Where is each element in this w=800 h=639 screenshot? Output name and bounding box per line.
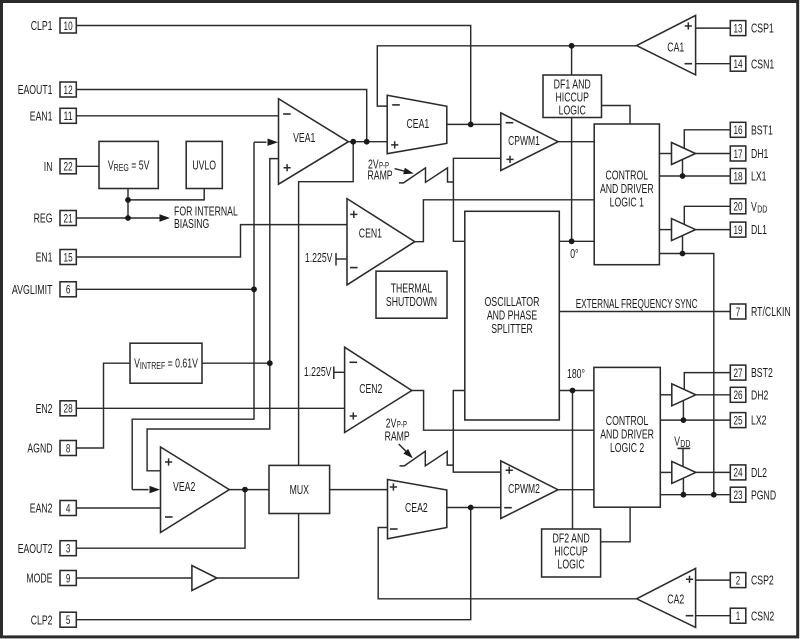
block OSCILLATOR AND PHASE SPLITTER [465, 211, 560, 420]
op-amp VEA2 [161, 447, 230, 533]
pin EN1 (15) [36, 250, 77, 265]
transconductance amp CEA2 [388, 480, 447, 539]
regulator VREG = 5V [99, 141, 158, 188]
junction driver 2 ground [681, 492, 687, 498]
wire CSN2 to CA2 [696, 615, 731, 617]
pin RT/CLKIN (7) [730, 304, 790, 319]
svg-text:PGND: PGND [751, 487, 776, 502]
pin AVGLIMIT (6) [12, 282, 76, 297]
pin CLP2 (5) [31, 612, 77, 627]
svg-text:CA1: CA1 [667, 39, 684, 54]
label 2VP-P RAMP (phase 2) [385, 416, 410, 444]
pin DH2 (26) [730, 387, 768, 402]
svg-text:CSP2: CSP2 [751, 573, 774, 588]
svg-text:SHUTDOWN: SHUTDOWN [386, 294, 437, 309]
svg-text:DH1: DH1 [751, 146, 768, 161]
wire VEA1 output to MUX input [299, 142, 354, 466]
svg-text:CA2: CA2 [667, 592, 684, 607]
svg-text:CEN2: CEN2 [359, 381, 382, 396]
svg-text:14: 14 [733, 57, 742, 71]
wire LX2 [660, 419, 730, 421]
svg-text:2: 2 [736, 573, 741, 587]
wire arrow into VEA1 [254, 141, 267, 143]
junction VREG/UVLO bias [125, 197, 131, 203]
svg-text:1: 1 [736, 609, 741, 623]
svg-text:1.225V: 1.225V [304, 364, 332, 379]
svg-text:25: 25 [733, 413, 742, 427]
junction driver 1 ground [680, 251, 686, 257]
wire REG to internal biasing arrow [76, 217, 159, 219]
wire EAOUT2 to VEA2 output node [76, 490, 245, 549]
wire DH2 [696, 394, 731, 396]
wire control logic 2 to high driver 2 [660, 394, 672, 396]
wire CEN2 output to control logic 2 [412, 391, 594, 431]
svg-text:11: 11 [64, 109, 73, 123]
wire CLP2 to CEA2 output node [76, 508, 470, 620]
svg-text:LX2: LX2 [751, 413, 767, 428]
svg-text:= 5V: = 5V [129, 158, 150, 173]
svg-text:CEA2: CEA2 [405, 500, 428, 515]
junction LX1 [680, 173, 686, 179]
svg-text:CSN2: CSN2 [751, 608, 774, 623]
wire control logic 1 to high driver 1 [659, 153, 671, 155]
svg-text:9: 9 [66, 571, 71, 585]
wire VDD pin to low driver 1 [684, 206, 730, 225]
svg-text:MUX: MUX [290, 482, 310, 497]
wire CSP2 to CA2 [696, 579, 731, 581]
comparator CEN2 [345, 347, 412, 432]
wire 1.225V to CEN2 - input [334, 371, 345, 373]
svg-text:13: 13 [733, 21, 742, 35]
svg-text:23: 23 [733, 488, 742, 502]
wire VDD symbol to low driver 2 [682, 449, 684, 467]
wire AVGLIMIT vertical to VEA1/VEA2 [132, 142, 254, 489]
svg-text:10: 10 [64, 19, 73, 33]
pin CSN1 (14) [730, 56, 774, 71]
junction REG bias [125, 215, 131, 221]
wire AVGLIMIT bus [76, 288, 254, 290]
VDD supply bar [678, 447, 691, 449]
wire LX1 [659, 175, 730, 177]
svg-text:20: 20 [733, 200, 742, 214]
current amp CA1 [637, 15, 696, 75]
svg-text:EAN2: EAN2 [30, 501, 53, 516]
svg-text:SPLITTER: SPLITTER [491, 321, 533, 336]
wire EAN2 to VEA2 inverting input [76, 507, 160, 509]
wire DH1 [696, 153, 731, 155]
svg-text:REG: REG [34, 211, 53, 226]
comparator CEN1 [347, 199, 415, 285]
junction VEA1 output / EAOUT1 [364, 139, 370, 145]
wire LX2 to driver 2 return [682, 401, 684, 420]
wire MUX output to CEA2 + input [330, 489, 388, 491]
svg-text:LOGIC: LOGIC [558, 556, 585, 571]
svg-text:EN1: EN1 [36, 250, 53, 265]
svg-text:18: 18 [733, 169, 742, 183]
junction VEA1 output / MUX branch [350, 139, 356, 145]
svg-text:DD: DD [680, 439, 690, 450]
driver buffer DH2 [672, 384, 696, 406]
wire AGND to VINTREF [76, 363, 130, 448]
junction VEA2 output / EAOUT2 [242, 487, 248, 493]
wire CEA2 output to CPWM2 - input [447, 507, 501, 509]
driver buffer DL2 [672, 461, 696, 483]
wire RT/CLKIN to oscillator [559, 311, 730, 313]
buffer MODE [192, 566, 217, 591]
pin DH1 (17) [730, 146, 768, 161]
wire DF2 logic to control logic 2 [601, 507, 631, 542]
svg-text:24: 24 [733, 466, 742, 480]
block CONTROL AND DRIVER LOGIC 2 [594, 367, 660, 507]
svg-text:EXTERNAL FREQUENCY SYNC: EXTERNAL FREQUENCY SYNC [576, 296, 698, 311]
block UVLO [186, 141, 222, 188]
comparator CPWM1 [501, 113, 558, 171]
wire VEA2 output to MUX [229, 489, 269, 491]
svg-text:INTREF: INTREF [140, 361, 165, 372]
wire EN2 to CEN2 non-inverting input [76, 407, 344, 409]
wire LX1 to driver 1 return [682, 160, 684, 176]
wire VEA1 output to CEA1 + input [348, 141, 387, 143]
svg-text:6: 6 [66, 283, 71, 297]
wire EAN1 to VEA1 inverting input [76, 115, 278, 117]
junction PGND bus [711, 492, 717, 498]
junction LX2 [681, 417, 687, 423]
svg-text:DH2: DH2 [751, 387, 768, 402]
wire DF1 logic to control logic 1 [602, 106, 631, 125]
svg-text:CLP2: CLP2 [31, 612, 53, 627]
svg-text:BIASING: BIASING [174, 216, 209, 231]
svg-text:CSN1: CSN1 [751, 56, 774, 71]
wire CLP1 to CEA1 output node [76, 26, 470, 125]
pin V (20) [730, 199, 767, 216]
pin MODE (9) [26, 571, 76, 586]
driver buffer DH1 [672, 143, 696, 165]
wire CA1 node to DF1 logic [571, 46, 573, 75]
wire CA2 output to CEA2 - input [378, 528, 636, 599]
svg-text:CEA1: CEA1 [407, 116, 430, 131]
wire low driver 1 ground to PGND bus [659, 254, 713, 495]
svg-text:AVGLIMIT: AVGLIMIT [12, 282, 53, 297]
svg-text:LOGIC 1: LOGIC 1 [610, 194, 644, 209]
junction CA1 output / DF1 [569, 43, 575, 49]
svg-text:BST1: BST1 [751, 122, 773, 137]
label 2VP-P RAMP (phase 1) [368, 156, 393, 182]
wire UVLO to bias node [128, 189, 204, 200]
transconductance amp CEA1 [387, 95, 447, 153]
svg-text:EAOUT2: EAOUT2 [18, 541, 53, 556]
junction CEA1 output / CLP1 [468, 122, 474, 128]
block MUX [269, 465, 330, 513]
wire CA1 output to CEA1 - input [377, 46, 636, 106]
svg-text:UVLO: UVLO [192, 158, 216, 173]
pin DL1 (19) [730, 222, 767, 237]
node 0 deg junction [569, 238, 575, 244]
junction CEA2 output / CLP2 [468, 505, 474, 511]
svg-text:BST2: BST2 [751, 365, 773, 380]
wire CSP1 to CA1 [696, 27, 731, 29]
svg-text:4: 4 [66, 501, 71, 515]
reference VINTREF = 0.61V [130, 343, 202, 383]
svg-text:CPWM1: CPWM1 [508, 133, 540, 148]
svg-text:1.225V: 1.225V [305, 250, 333, 265]
pin EN2 (28) [36, 401, 77, 416]
wire control logic 2 to low driver 2 [660, 471, 672, 473]
svg-text:16: 16 [733, 123, 742, 137]
wire ramp 1 to CPWM1 + input [453, 158, 500, 241]
power symbol VDD (driver 2) [674, 433, 690, 449]
wire bias node down to REG [127, 200, 129, 218]
pin EAOUT1 (12) [18, 82, 77, 97]
comparator CPWM2 [501, 461, 558, 519]
svg-text:REG: REG [114, 163, 129, 174]
wire VINTREF output [202, 362, 270, 364]
svg-text:180°: 180° [567, 366, 585, 381]
wire EN1 to CEN1 non-inverting input [76, 225, 347, 257]
svg-text:27: 27 [733, 366, 742, 380]
svg-text:8: 8 [66, 441, 71, 455]
1.225V reference tick (CEN2) [333, 367, 335, 380]
wire CEA1 output to CPWM1 - input [447, 123, 501, 125]
block THERMAL SHUTDOWN [376, 271, 447, 318]
svg-text:IN: IN [44, 159, 53, 174]
svg-text:19: 19 [733, 223, 742, 237]
junction VINTREF [267, 360, 273, 366]
wire DF1 logic to 0 deg node [571, 118, 573, 242]
wire PGND [660, 494, 730, 496]
svg-text:26: 26 [733, 388, 742, 402]
wire CPWM2 output to control logic 2 [558, 489, 594, 491]
wire BST1 to driver 1 [684, 130, 730, 149]
wire VINTREF vertical to VEA1 + input [147, 159, 278, 471]
svg-text:DD: DD [757, 204, 767, 215]
svg-text:VEA1: VEA1 [293, 130, 315, 145]
ramp 2 pointer arrow [399, 444, 406, 451]
svg-text:AGND: AGND [27, 441, 52, 456]
junction AVGLIMIT [251, 286, 257, 292]
wire CPWM1 output to control logic 1 [558, 141, 594, 143]
pin BST2 (27) [730, 365, 773, 380]
svg-text:RAMP: RAMP [368, 168, 393, 183]
current amp CA2 [637, 568, 696, 627]
svg-text:EAN1: EAN1 [30, 108, 53, 123]
pin CSP1 (13) [730, 21, 773, 36]
wire oscillator 0 deg to control logic 1 [559, 240, 594, 242]
wire IN to VREG [76, 165, 99, 167]
svg-text:V: V [751, 199, 757, 214]
ramp 1 sawtooth [399, 168, 453, 183]
wire driver 1 ground stub [682, 236, 684, 254]
svg-text:7: 7 [736, 305, 741, 319]
ramp 2 sawtooth [400, 451, 454, 466]
svg-text:LX1: LX1 [751, 169, 767, 184]
pin CLP1 (10) [31, 18, 77, 33]
svg-text:EAOUT1: EAOUT1 [18, 82, 53, 97]
wire CEN1 output to control logic 1 [415, 200, 594, 242]
svg-text:0°: 0° [570, 246, 578, 261]
svg-text:22: 22 [64, 160, 73, 174]
wire arrow into VEA2 [132, 489, 148, 491]
driver buffer DL1 [672, 219, 696, 241]
svg-text:21: 21 [64, 211, 73, 225]
wire DL2 [696, 471, 731, 473]
wire driver 2 ground stub [682, 478, 684, 495]
pin AGND (8) [27, 441, 76, 456]
svg-text:CSP1: CSP1 [751, 21, 774, 36]
svg-text:DL2: DL2 [751, 465, 767, 480]
pin EAOUT2 (3) [18, 541, 77, 556]
pin BST1 (16) [730, 122, 773, 137]
pin IN (22) [44, 159, 77, 174]
svg-text:17: 17 [733, 147, 742, 161]
wire 180 deg node to DF2 logic [572, 391, 574, 530]
svg-text:3: 3 [66, 542, 71, 556]
wire BST2 to driver 2 [684, 373, 730, 391]
pin CSN2 (1) [730, 608, 774, 623]
pin DL2 (24) [730, 465, 767, 480]
wire MODE to buffer [76, 577, 192, 579]
block DF2 AND HICCUP LOGIC [542, 529, 601, 577]
wire oscillator 180 deg to control logic 2 [559, 390, 594, 392]
pin LX1 (18) [730, 169, 766, 184]
block DF1 AND HICCUP LOGIC [543, 75, 602, 118]
svg-text:CPWM2: CPWM2 [508, 481, 540, 496]
svg-text:VEA2: VEA2 [173, 479, 195, 494]
svg-text:RAMP: RAMP [385, 429, 410, 444]
svg-text:DL1: DL1 [751, 222, 767, 237]
wire control logic 1 to low driver 1 [659, 229, 671, 231]
pin PGND (23) [730, 487, 776, 502]
pin LX2 (25) [730, 413, 766, 428]
wire CSN1 to CA1 [696, 63, 731, 65]
svg-text:12: 12 [64, 83, 73, 97]
wire VREG output to bias node [127, 189, 129, 200]
wire MODE buffer to MUX [217, 514, 299, 579]
wire EAOUT1 to VEA1 output node [76, 90, 366, 142]
op-amp VEA1 [279, 99, 349, 185]
pin CSP2 (2) [730, 573, 773, 588]
node 180 deg junction [570, 388, 576, 394]
svg-text:MODE: MODE [26, 571, 52, 586]
block CONTROL AND DRIVER LOGIC 1 [594, 124, 659, 265]
svg-text:28: 28 [64, 402, 73, 416]
label FOR INTERNAL BIASING [174, 203, 238, 231]
1.225V reference tick (CEN1) [335, 253, 337, 266]
svg-text:CEN1: CEN1 [359, 225, 382, 240]
svg-text:CLP1: CLP1 [31, 18, 53, 33]
wire DL1 [696, 229, 731, 231]
svg-text:LOGIC: LOGIC [559, 102, 586, 117]
svg-text:15: 15 [64, 250, 73, 264]
svg-text:= 0.61V: = 0.61V [165, 356, 198, 371]
svg-text:EN2: EN2 [36, 401, 53, 416]
svg-text:LOGIC 2: LOGIC 2 [610, 440, 644, 455]
pin REG (21) [34, 211, 77, 226]
pin EAN2 (4) [30, 501, 77, 516]
svg-text:5: 5 [66, 613, 71, 627]
ramp 1 pointer arrow [395, 169, 405, 172]
wire 1.225V to CEN1 - input [336, 258, 347, 260]
pin EAN1 (11) [30, 108, 77, 123]
svg-text:RT/CLKIN: RT/CLKIN [751, 304, 791, 319]
wire ramp 2 to CPWM2 + input [453, 391, 501, 473]
